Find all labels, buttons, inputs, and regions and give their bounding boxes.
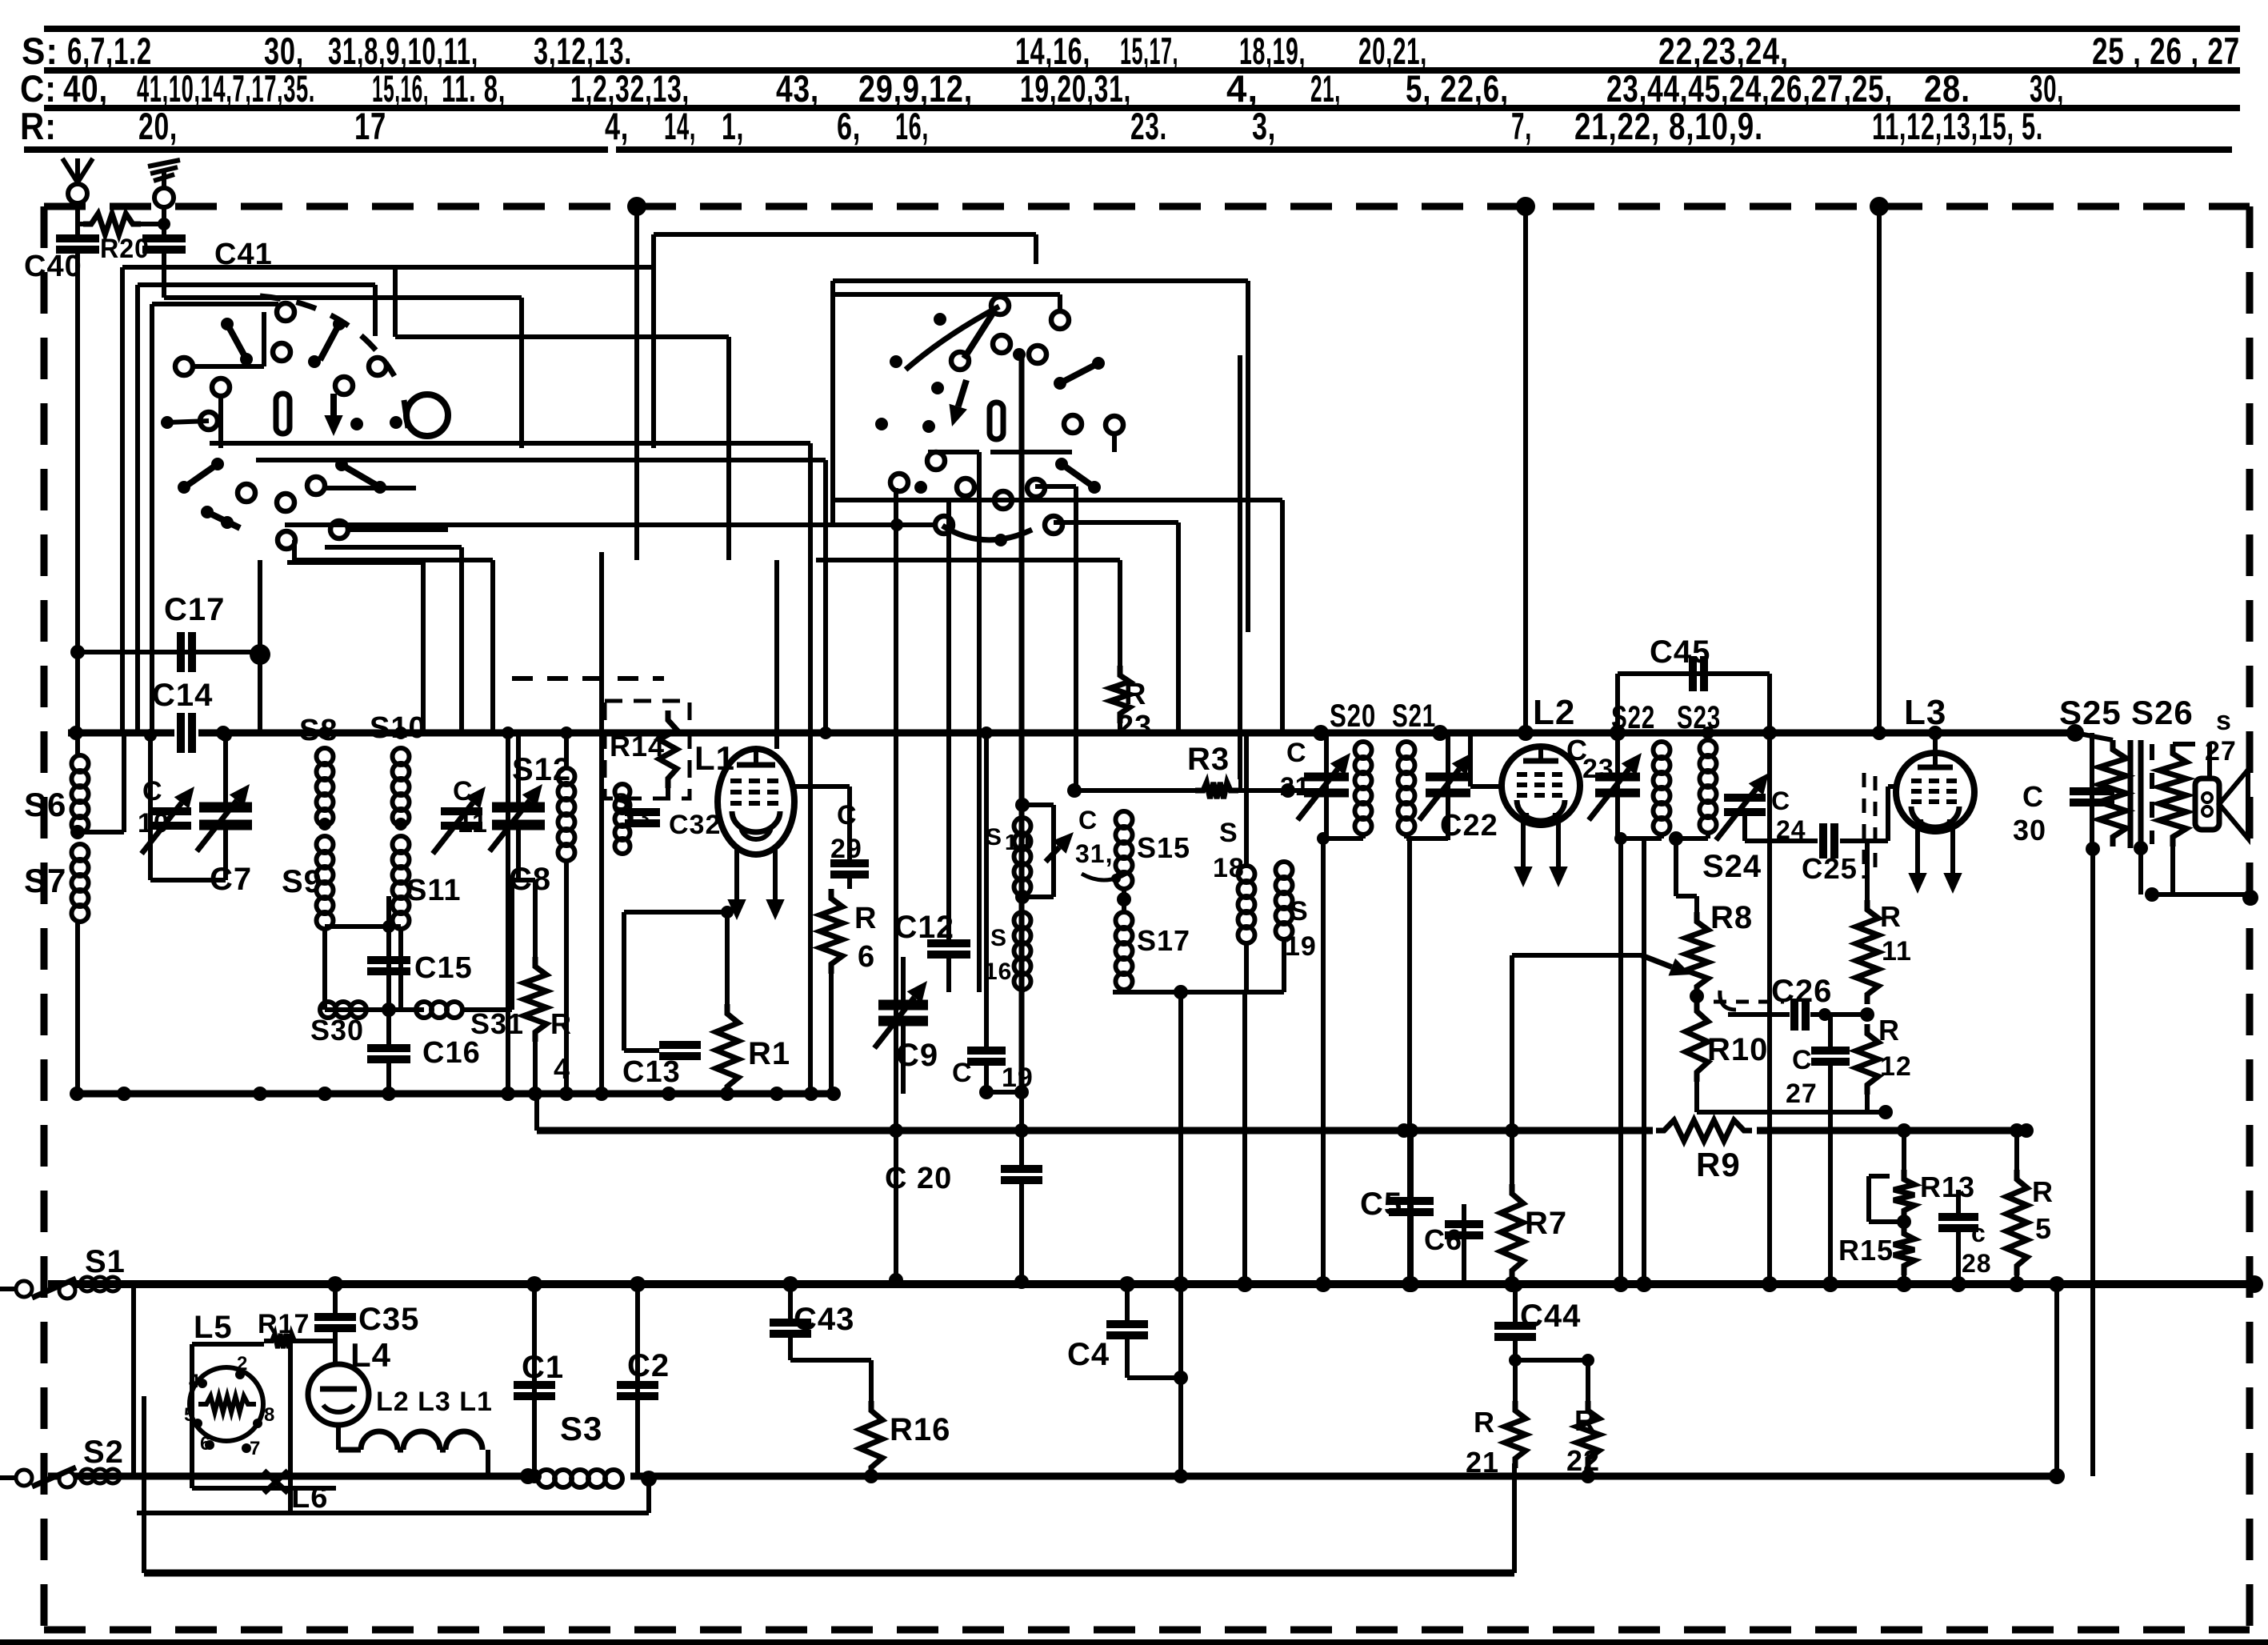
svg-text:30: 30	[2013, 814, 2046, 847]
svg-text:R: R	[1474, 1406, 1495, 1439]
svg-text:10: 10	[138, 808, 170, 839]
svg-text:C16: C16	[422, 1036, 481, 1070]
svg-text:22,23,24,: 22,23,24,	[1658, 30, 1789, 72]
svg-text:C: C	[453, 776, 474, 806]
svg-text:7: 7	[250, 1438, 261, 1459]
svg-text:R7: R7	[1525, 1206, 1567, 1241]
svg-text:R: R	[854, 902, 877, 935]
svg-text:S17: S17	[1137, 924, 1190, 957]
svg-text:S10: S10	[370, 711, 426, 745]
svg-text:3,: 3,	[1252, 105, 1276, 147]
svg-text:16,: 16,	[895, 105, 929, 147]
svg-text:4: 4	[189, 1371, 200, 1392]
svg-text:11: 11	[1882, 936, 1912, 967]
svg-text:28.: 28.	[1924, 67, 1970, 110]
svg-text:L1: L1	[694, 739, 735, 777]
svg-text:R9: R9	[1696, 1146, 1741, 1183]
svg-text:1,2,32,13,: 1,2,32,13,	[570, 67, 690, 110]
svg-text:31,: 31,	[1075, 839, 1113, 868]
svg-text:R:: R:	[20, 105, 57, 147]
svg-text:S30: S30	[310, 1014, 364, 1047]
svg-text:S: S	[1290, 896, 1309, 927]
svg-text:R13: R13	[1920, 1171, 1975, 1203]
svg-text:C: C	[837, 800, 858, 831]
svg-text:C6: C6	[1424, 1223, 1462, 1256]
svg-text:20,21,: 20,21,	[1358, 30, 1427, 72]
svg-text:11,12,13,15, 5.: 11,12,13,15, 5.	[1872, 105, 2043, 147]
svg-text:C: C	[1078, 806, 1098, 835]
svg-text:C26: C26	[1771, 974, 1832, 1009]
svg-text:C32: C32	[669, 810, 721, 840]
svg-text:43,: 43,	[776, 67, 819, 110]
svg-text:C2: C2	[627, 1348, 670, 1383]
svg-text:14,16,: 14,16,	[1015, 30, 1090, 72]
svg-text:C25: C25	[1802, 852, 1858, 885]
svg-text:15,17,: 15,17,	[1120, 30, 1178, 72]
svg-text:C44: C44	[1520, 1299, 1581, 1334]
svg-text:S3: S3	[560, 1410, 602, 1447]
svg-text:R: R	[1574, 1404, 1596, 1437]
svg-text:40,: 40,	[63, 67, 108, 110]
svg-text:30,: 30,	[264, 30, 304, 72]
svg-text:18,19,: 18,19,	[1239, 30, 1306, 72]
svg-text:30,: 30,	[2030, 67, 2064, 110]
svg-text:S15: S15	[1137, 831, 1190, 864]
svg-text:21,22, 8,10,9.: 21,22, 8,10,9.	[1574, 105, 1763, 147]
svg-text:S11: S11	[406, 874, 462, 907]
svg-text:C17: C17	[164, 592, 225, 627]
svg-text:S20: S20	[1330, 698, 1376, 734]
svg-text:27: 27	[2205, 736, 2237, 766]
svg-text:L2: L2	[1533, 693, 1575, 732]
svg-text:S6: S6	[24, 786, 66, 823]
svg-text:S: S	[990, 925, 1007, 951]
svg-text:C35: C35	[358, 1302, 419, 1337]
svg-text:C22: C22	[1440, 809, 1498, 843]
svg-text:C43: C43	[794, 1302, 854, 1337]
svg-text:25 , 26 , 27: 25 , 26 , 27	[2092, 30, 2240, 72]
svg-text:23: 23	[1117, 710, 1152, 743]
svg-text:17: 17	[354, 105, 386, 147]
svg-text:R: R	[1124, 678, 1146, 711]
svg-text:23,44,45,24,26,27,25,: 23,44,45,24,26,27,25,	[1606, 67, 1893, 110]
svg-text:23.: 23.	[1130, 105, 1167, 147]
svg-text:12: 12	[1880, 1051, 1912, 1082]
svg-text:18: 18	[1213, 853, 1245, 883]
svg-text:11: 11	[458, 808, 488, 839]
svg-text:C: C	[2022, 780, 2044, 813]
svg-text:21,: 21,	[1310, 67, 1341, 110]
svg-text:4,: 4,	[605, 105, 629, 147]
svg-text:7,: 7,	[1511, 105, 1532, 147]
svg-text:C15: C15	[414, 951, 473, 985]
svg-text:21: 21	[1466, 1446, 1499, 1479]
svg-text:1,: 1,	[722, 105, 744, 147]
svg-text:C: C	[142, 776, 163, 806]
svg-text:C13: C13	[622, 1055, 681, 1089]
svg-text:C9: C9	[896, 1038, 938, 1073]
svg-text:S8: S8	[299, 714, 338, 747]
svg-text:C40: C40	[24, 250, 82, 283]
svg-text:R16: R16	[890, 1412, 950, 1447]
svg-text:c: c	[1971, 1219, 1986, 1247]
svg-text:R: R	[2032, 1175, 2054, 1208]
svg-text:S:: S:	[22, 30, 58, 72]
svg-text:14: 14	[1005, 830, 1031, 855]
svg-text:L4: L4	[350, 1336, 391, 1374]
svg-text:5: 5	[184, 1404, 195, 1426]
svg-text:L6: L6	[291, 1481, 328, 1515]
svg-text:19,20,31,: 19,20,31,	[1020, 67, 1131, 110]
svg-text:s: s	[2216, 706, 2232, 736]
svg-text:R10: R10	[1707, 1032, 1768, 1067]
svg-text:22: 22	[1566, 1444, 1600, 1477]
svg-text:C14: C14	[152, 678, 213, 713]
svg-text:C:: C:	[20, 67, 57, 110]
svg-text:R8: R8	[1710, 900, 1753, 935]
svg-text:S2: S2	[83, 1435, 124, 1470]
svg-text:2: 2	[237, 1353, 248, 1375]
svg-text:R: R	[1880, 900, 1902, 933]
svg-text:S25: S25	[2059, 694, 2122, 731]
svg-text:20,: 20,	[138, 105, 178, 147]
svg-text:4,: 4,	[1226, 67, 1258, 110]
svg-text:S22: S22	[1611, 700, 1655, 735]
svg-text:C: C	[1286, 738, 1307, 768]
svg-text:C: C	[952, 1058, 973, 1088]
svg-text:S: S	[986, 824, 1002, 851]
svg-text:16: 16	[984, 959, 1012, 985]
svg-text:19: 19	[1285, 931, 1317, 962]
svg-text:11. 8,: 11. 8,	[442, 67, 506, 110]
svg-text:C 20: C 20	[885, 1162, 952, 1195]
svg-text:8: 8	[264, 1404, 275, 1426]
svg-text:C: C	[1792, 1045, 1813, 1075]
svg-text:S9: S9	[282, 864, 322, 899]
svg-text:14,: 14,	[664, 105, 696, 147]
svg-text:C45: C45	[1650, 634, 1710, 670]
svg-text:C4: C4	[1067, 1337, 1110, 1372]
svg-text:C5: C5	[1360, 1187, 1402, 1222]
svg-text:6: 6	[858, 940, 875, 974]
svg-text:R1: R1	[748, 1036, 790, 1071]
svg-text:31,8,9,10,11,: 31,8,9,10,11,	[328, 30, 478, 72]
svg-text:3,12,13.: 3,12,13.	[534, 30, 632, 72]
svg-text:R: R	[1878, 1014, 1900, 1047]
svg-text:5: 5	[2035, 1212, 2052, 1245]
svg-text:C1: C1	[522, 1350, 564, 1385]
svg-text:L2 L3 L1: L2 L3 L1	[376, 1387, 493, 1417]
svg-text:6,: 6,	[837, 105, 861, 147]
svg-text:29,9,12,: 29,9,12,	[858, 67, 973, 110]
svg-text:5, 22,6,: 5, 22,6,	[1406, 67, 1509, 110]
svg-text:S: S	[1219, 818, 1238, 848]
svg-text:6: 6	[200, 1433, 211, 1455]
svg-text:R14: R14	[610, 730, 665, 762]
svg-text:15,16,: 15,16,	[372, 67, 429, 110]
svg-text:S7: S7	[24, 862, 66, 899]
svg-text:S24: S24	[1702, 849, 1762, 884]
svg-text:C: C	[1771, 786, 1790, 815]
svg-text:S31: S31	[470, 1007, 524, 1040]
svg-text:6,7,1.2: 6,7,1.2	[67, 30, 152, 72]
svg-text:S26: S26	[2131, 694, 2194, 731]
svg-text:29: 29	[830, 834, 862, 864]
svg-text:21: 21	[1280, 772, 1310, 801]
svg-text:R3: R3	[1187, 742, 1230, 777]
svg-text:R15: R15	[1838, 1234, 1894, 1267]
svg-text:C12: C12	[894, 910, 954, 945]
svg-text:S1: S1	[85, 1244, 126, 1279]
svg-text:41,10,14,7,17,35.: 41,10,14,7,17,35.	[137, 67, 315, 110]
svg-text:L3: L3	[1904, 693, 1946, 732]
svg-text:27: 27	[1786, 1079, 1818, 1109]
svg-text:L5: L5	[194, 1310, 233, 1345]
svg-text:S21: S21	[1392, 698, 1436, 734]
svg-text:R20: R20	[100, 234, 150, 264]
svg-text:S23: S23	[1677, 700, 1721, 735]
svg-text:28: 28	[1962, 1249, 1992, 1278]
